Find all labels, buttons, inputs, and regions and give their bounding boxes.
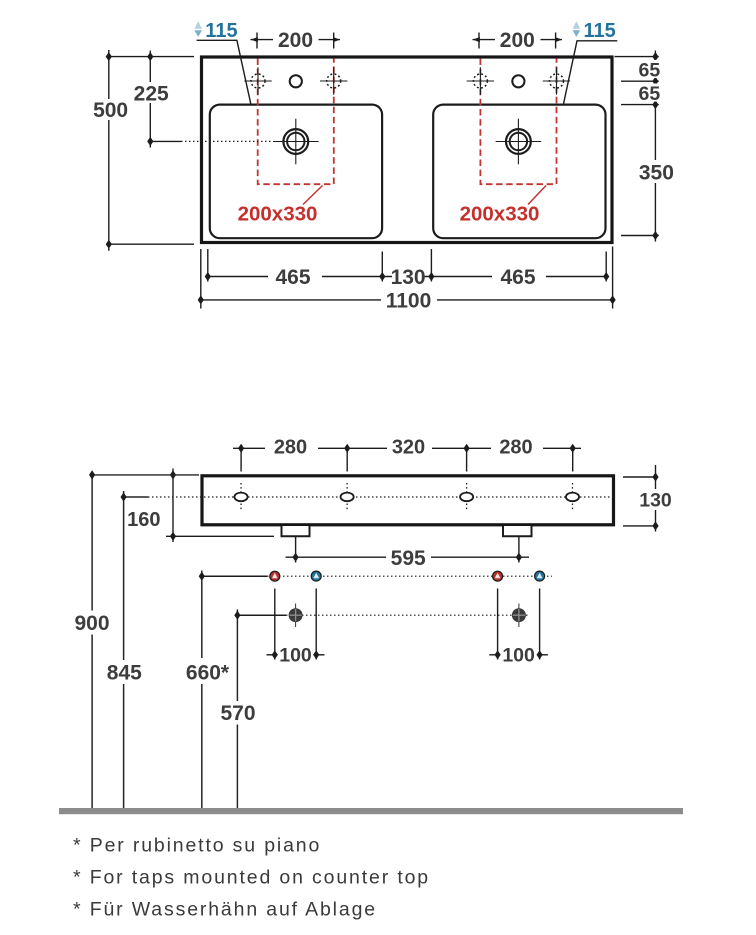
waste outlet left — [289, 604, 303, 628]
washbasin outer rim (plan) — [202, 57, 613, 243]
cold water connection left (blue) — [311, 571, 321, 581]
115 leader right — [563, 41, 617, 105]
cold water connection right (blue) — [535, 571, 545, 581]
svg-text:115: 115 — [205, 20, 237, 42]
washbasin body (front view) — [202, 476, 614, 525]
115 leader left — [197, 40, 251, 105]
svg-text:200x330: 200x330 — [238, 202, 318, 225]
red dashed cutout 200x330 right — [480, 59, 556, 185]
waste outlet right — [512, 604, 526, 628]
floor line — [59, 808, 683, 814]
svg-text:465: 465 — [275, 266, 310, 289]
svg-text:* For taps mounted on counter: * For taps mounted on counter top — [73, 867, 430, 889]
svg-text:280: 280 — [499, 437, 532, 459]
tap hole left-left (dotted circle + crosshair) — [244, 67, 271, 94]
svg-text:660*: 660* — [186, 662, 230, 685]
svg-text:225: 225 — [134, 82, 169, 105]
hot water connection right (red) — [493, 571, 503, 581]
svg-text:1100: 1100 — [386, 290, 432, 313]
waste dotted line — [237, 614, 286, 616]
svg-text:350: 350 — [639, 162, 674, 185]
svg-text:320: 320 — [392, 437, 425, 459]
svg-text:115: 115 — [584, 20, 616, 42]
tap hole right-right — [543, 67, 570, 94]
svg-text:100: 100 — [279, 645, 312, 667]
svg-text:280: 280 — [274, 437, 307, 459]
red leader right — [528, 186, 546, 205]
overflow hole left — [290, 75, 302, 87]
dim 845 (slot line height) — [124, 491, 148, 809]
svg-text:595: 595 — [391, 547, 426, 570]
tap hole left-right — [320, 67, 347, 94]
svg-text:130: 130 — [391, 266, 426, 289]
svg-text:100: 100 — [502, 645, 535, 667]
height symbol + 115 label left — [194, 21, 202, 37]
dim 1100 (overall width) — [201, 247, 613, 309]
svg-text:900: 900 — [74, 612, 109, 635]
dim 100 left (tap spacing) — [267, 589, 325, 660]
fixing slot 2 — [341, 483, 354, 511]
dims 65 / 65 / 350 (right of plan) — [615, 51, 659, 242]
svg-text:160: 160 — [127, 509, 160, 531]
svg-text:130: 130 — [639, 489, 672, 511]
svg-text:570: 570 — [220, 702, 255, 725]
right bowl — [433, 105, 605, 239]
svg-text:465: 465 — [500, 266, 535, 289]
dim 570 (waste height) — [236, 610, 238, 810]
dim 465 / 130 / 465 (below plan) — [208, 249, 606, 282]
drain right — [496, 119, 542, 165]
dim 500 (left of plan) — [109, 50, 194, 251]
dim 225 (to drain centre) — [150, 51, 272, 148]
dim 200 left (top) — [251, 33, 341, 49]
red dashed cutout 200x330 left — [258, 59, 334, 185]
dim 660* (tap supply height) — [201, 571, 203, 810]
svg-text:* Per rubinetto su piano: * Per rubinetto su piano — [73, 835, 321, 857]
svg-text:65: 65 — [639, 83, 661, 105]
fixing slot 1 — [234, 483, 247, 511]
left bowl — [210, 105, 382, 239]
mounting tab right — [503, 526, 532, 536]
mounting tab left — [282, 526, 310, 536]
dim 130 (front view height, right) — [623, 465, 658, 532]
tap hole right-left — [467, 67, 494, 94]
svg-text:845: 845 — [107, 662, 142, 685]
svg-text:200: 200 — [278, 29, 313, 52]
fixing slot 3 — [460, 483, 473, 511]
drain left (double circle + crosshair) — [273, 119, 319, 165]
fixing slot 4 — [566, 483, 579, 511]
dim 280 / 320 / 280 (above front view) — [233, 448, 581, 471]
centreline dotted through front view (845 reference) — [148, 496, 613, 498]
dim 160 (top to tab bottom) — [166, 469, 274, 543]
svg-text:65: 65 — [639, 59, 661, 81]
dim 100 right (tap spacing) — [489, 589, 548, 660]
dim 200 right (top) — [473, 33, 563, 49]
red leader left — [303, 186, 323, 205]
svg-text:200x330: 200x330 — [460, 202, 540, 225]
water supply dotted line — [202, 575, 267, 577]
svg-text:* Für Wasserhähn auf Ablage: * Für Wasserhähn auf Ablage — [73, 898, 377, 920]
dim 900 (rim height) — [92, 475, 199, 809]
overflow hole right — [512, 75, 524, 87]
svg-text:500: 500 — [93, 99, 128, 122]
svg-text:200: 200 — [500, 29, 535, 52]
hot water connection left (red) — [270, 571, 280, 581]
dim 595 (between tab centres) — [286, 536, 530, 562]
height symbol + 115 label right — [573, 21, 581, 37]
